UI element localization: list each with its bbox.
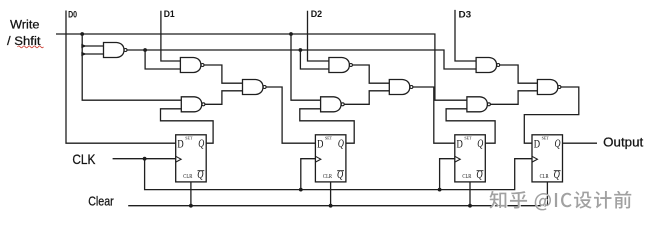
- wire FF4 Q to Output: [563, 142, 598, 144]
- nand U6 stage-2 shift gate: [321, 97, 345, 112]
- nand U7 stage-2 combiner: [389, 80, 413, 95]
- wire Clear riser to FF2 CLR pin: [330, 182, 332, 206]
- wire D1 input down to stage-1 load-NAND: [161, 11, 181, 61]
- nand U9 stage-3 shift gate: [467, 97, 491, 112]
- node W-bar junction stage 1: [143, 48, 147, 52]
- flip-flop FF3 D flip-flop: [455, 135, 486, 182]
- wire U1 input stub b: [82, 53, 103, 55]
- wire U4 output down to FF2 D pin: [266, 87, 315, 143]
- svg-text:D: D: [457, 136, 464, 150]
- wire D3 input down to stage-3 load-NAND: [455, 10, 476, 61]
- wire W-bar drop to stage-1 load-NAND input: [145, 50, 180, 69]
- wire Clear bus along bottom rising to FF4 CLR pin: [128, 182, 547, 206]
- wire CLK riser to FF3 clock pin: [440, 159, 455, 190]
- wire W drop through inverter U1 inputs to stage-1 shift-NAND input: [82, 34, 181, 100]
- flip-flop FF2 D flip-flop: [315, 135, 346, 182]
- node Clear junction FF3: [468, 204, 472, 208]
- svg-text:Q: Q: [555, 136, 561, 150]
- node CLK junction: [143, 157, 147, 161]
- wire Q2 feedback from FF2 Q to U6 input: [300, 109, 354, 143]
- node junction U1 input a (triangle): [81, 44, 86, 49]
- nand U2 stage-1 load gate: [180, 58, 204, 73]
- svg-text:Q: Q: [198, 136, 204, 150]
- svg-text:CLR: CLR: [540, 174, 549, 180]
- wire U7 output down to FF3 D pin: [413, 87, 455, 143]
- svg-text:Write: Write: [10, 18, 40, 32]
- wire D0 input down and right to FF1 D pin: [66, 11, 176, 144]
- wire CLK bus along bottom rising to FF4 clock pin: [145, 159, 532, 190]
- svg-text:Output: Output: [603, 135, 643, 150]
- node junction U1 input b (triangle): [81, 52, 86, 57]
- svg-text:CLR: CLR: [462, 174, 471, 180]
- wire D2 input down to stage-2 load-NAND: [308, 11, 329, 61]
- svg-text:Clear: Clear: [88, 193, 114, 208]
- watermark zhihu @IC (vector glyphs): [491, 192, 633, 212]
- flip-flop FF4 D flip-flop: [532, 135, 563, 182]
- svg-text:CLR: CLR: [183, 174, 192, 180]
- wire U3 output up to U4 bottom input: [205, 91, 243, 105]
- wire U5 output to U7 top input: [353, 65, 390, 83]
- wire U9 output up to U10 bottom input: [491, 91, 538, 105]
- wire Write/Shift control W across top then down to stage-3 shift-NAND input: [56, 34, 467, 100]
- nand U1 inverter for Write/Shift: [104, 43, 128, 58]
- svg-text:D0: D0: [68, 10, 77, 21]
- svg-text:D3: D3: [459, 9, 472, 20]
- node CLK bus junction FF3: [438, 188, 442, 192]
- wire U2 output to U4 top input: [204, 65, 243, 83]
- nand U5 stage-2 load gate: [329, 58, 353, 73]
- label Write / Shfit with red squiggle: [7, 18, 43, 49]
- wire U6 output up to U7 bottom input: [344, 91, 389, 105]
- svg-text:SET: SET: [185, 136, 193, 141]
- wire W-bar line from U1 output across then down to stage-3 load-NAND input: [127, 50, 476, 69]
- svg-text:D: D: [534, 136, 541, 150]
- svg-text:D: D: [177, 136, 184, 150]
- svg-text:SET: SET: [542, 136, 550, 141]
- wire CLK input to FF1 clock pin: [113, 158, 176, 160]
- svg-text:D2: D2: [311, 9, 322, 20]
- nand U3 stage-1 shift gate: [181, 97, 205, 112]
- svg-text:SET: SET: [464, 136, 472, 141]
- node Clear junction FF2: [329, 204, 333, 208]
- svg-text:CLR: CLR: [323, 174, 332, 180]
- node CLK bus junction FF2: [299, 188, 303, 192]
- wire U10 output around to FF4 D pin: [524, 87, 579, 143]
- wire Q1 feedback from FF1 Q to U3 input: [161, 109, 214, 143]
- svg-text:D: D: [317, 136, 324, 150]
- svg-text:SET: SET: [325, 136, 333, 141]
- wire Clear riser to FF1 CLR pin: [190, 182, 192, 206]
- nand U10 stage-3 combiner: [537, 80, 561, 95]
- node W junction feeding inverter: [80, 32, 84, 36]
- wire W-bar drop to stage-2 load-NAND input: [300, 50, 329, 69]
- svg-text:CLK: CLK: [72, 151, 96, 167]
- svg-text:Q: Q: [338, 136, 344, 150]
- node Clear junction FF1: [189, 204, 193, 208]
- nand U8 stage-3 load gate: [476, 58, 500, 73]
- nand U4 stage-1 combiner: [243, 80, 267, 95]
- wire Clear riser to FF3 CLR pin: [469, 182, 471, 206]
- svg-text:D1: D1: [164, 9, 176, 20]
- wire CLK riser to FF2 clock pin: [301, 159, 316, 190]
- svg-text:Q: Q: [477, 136, 483, 150]
- wire W drop to stage-2 shift-NAND input: [291, 34, 321, 100]
- node W-bar junction stage 2: [299, 48, 303, 52]
- wire Q3 feedback from FF3 Q to U9 input: [446, 109, 495, 143]
- wire U1 input stub a: [82, 45, 103, 47]
- node W junction at stage 2: [289, 32, 293, 36]
- flip-flop FF1 D flip-flop: [176, 135, 207, 182]
- wire U8 output to U10 top input: [500, 65, 538, 83]
